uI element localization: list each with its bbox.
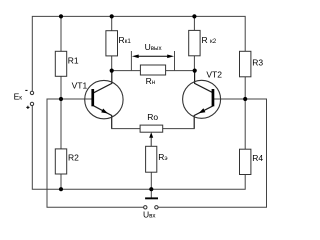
Uvyh left arrowhead [132,55,139,59]
resistor R4 [240,149,264,174]
transistor VT2 [183,69,223,118]
resistor R3 [240,51,264,77]
ground [145,197,158,199]
wire VT1 emitter [94,106,112,129]
svg-text:R2: R2 [68,152,79,162]
wire Ro to VT2 emitter [163,128,195,130]
svg-text:R3: R3 [252,57,263,67]
svg-text:R4: R4 [252,153,263,163]
resistor Rn (load) [140,65,165,86]
wire base lead VT2 [214,98,246,100]
wire Ek plus to bottom rail1 [32,105,245,189]
svg-text:Ro: Ro [147,112,158,122]
wire R1 column [60,16,62,189]
wire collector rail [112,70,195,72]
Uvyh arrow shaft [138,55,168,57]
resistor R2 [55,149,79,174]
transistor VT2 base bar [212,89,215,106]
wire VT1 collector [94,71,112,93]
transistor VT1 [72,80,124,118]
node VT2 collector [193,69,197,73]
transistor VT1 emitter arrowhead [101,109,108,114]
source Ek plus terminal [30,102,33,105]
node R2 bottom [59,187,63,191]
wire Rk1 column [111,16,113,70]
node VT1 base [59,97,63,101]
wire left input riser [47,99,144,207]
svg-text:R1: R1 [68,56,79,66]
node Rk1 top [110,14,114,18]
Uvyh measurement arrows [131,42,174,70]
node R1 top [59,14,63,18]
potentiometer Ro [140,112,163,132]
minus sign [25,89,27,91]
wire base lead VT1 [61,98,92,100]
wire top rail [32,16,245,91]
wiper arrowhead [149,132,153,138]
node Rk2 top [192,14,196,18]
wire VT2 collector [195,71,214,93]
wire VT1 emitter to Ro [111,128,140,130]
node VT2 base [243,97,247,101]
plus sign [26,106,29,109]
wiper arrow of Ro [149,132,153,146]
node VT1 collector [110,69,114,73]
input terminal Uvh right [155,206,158,209]
wire Re column [150,146,152,189]
wire Rk2 column [193,16,195,70]
wire right input riser [158,99,267,207]
transistor VT2 emitter arrowhead [199,108,206,113]
wire ground stub [150,189,152,197]
resistor R1 [55,51,79,76]
input terminal Uvh left [143,206,158,220]
Uvyh right arrowhead [167,55,174,59]
svg-text:VT1: VT1 [72,81,88,91]
resistor Re [146,146,168,172]
node ground rail [149,187,153,191]
transistor VT1 base bar [91,89,94,106]
svg-text:VT2: VT2 [206,69,222,79]
wire VT2 emitter [194,106,213,129]
source Ek minus terminal [14,90,34,109]
resistor Rk1 [106,31,131,56]
wire R3 R4 column [244,77,246,149]
resistor Rk2 [189,30,217,55]
